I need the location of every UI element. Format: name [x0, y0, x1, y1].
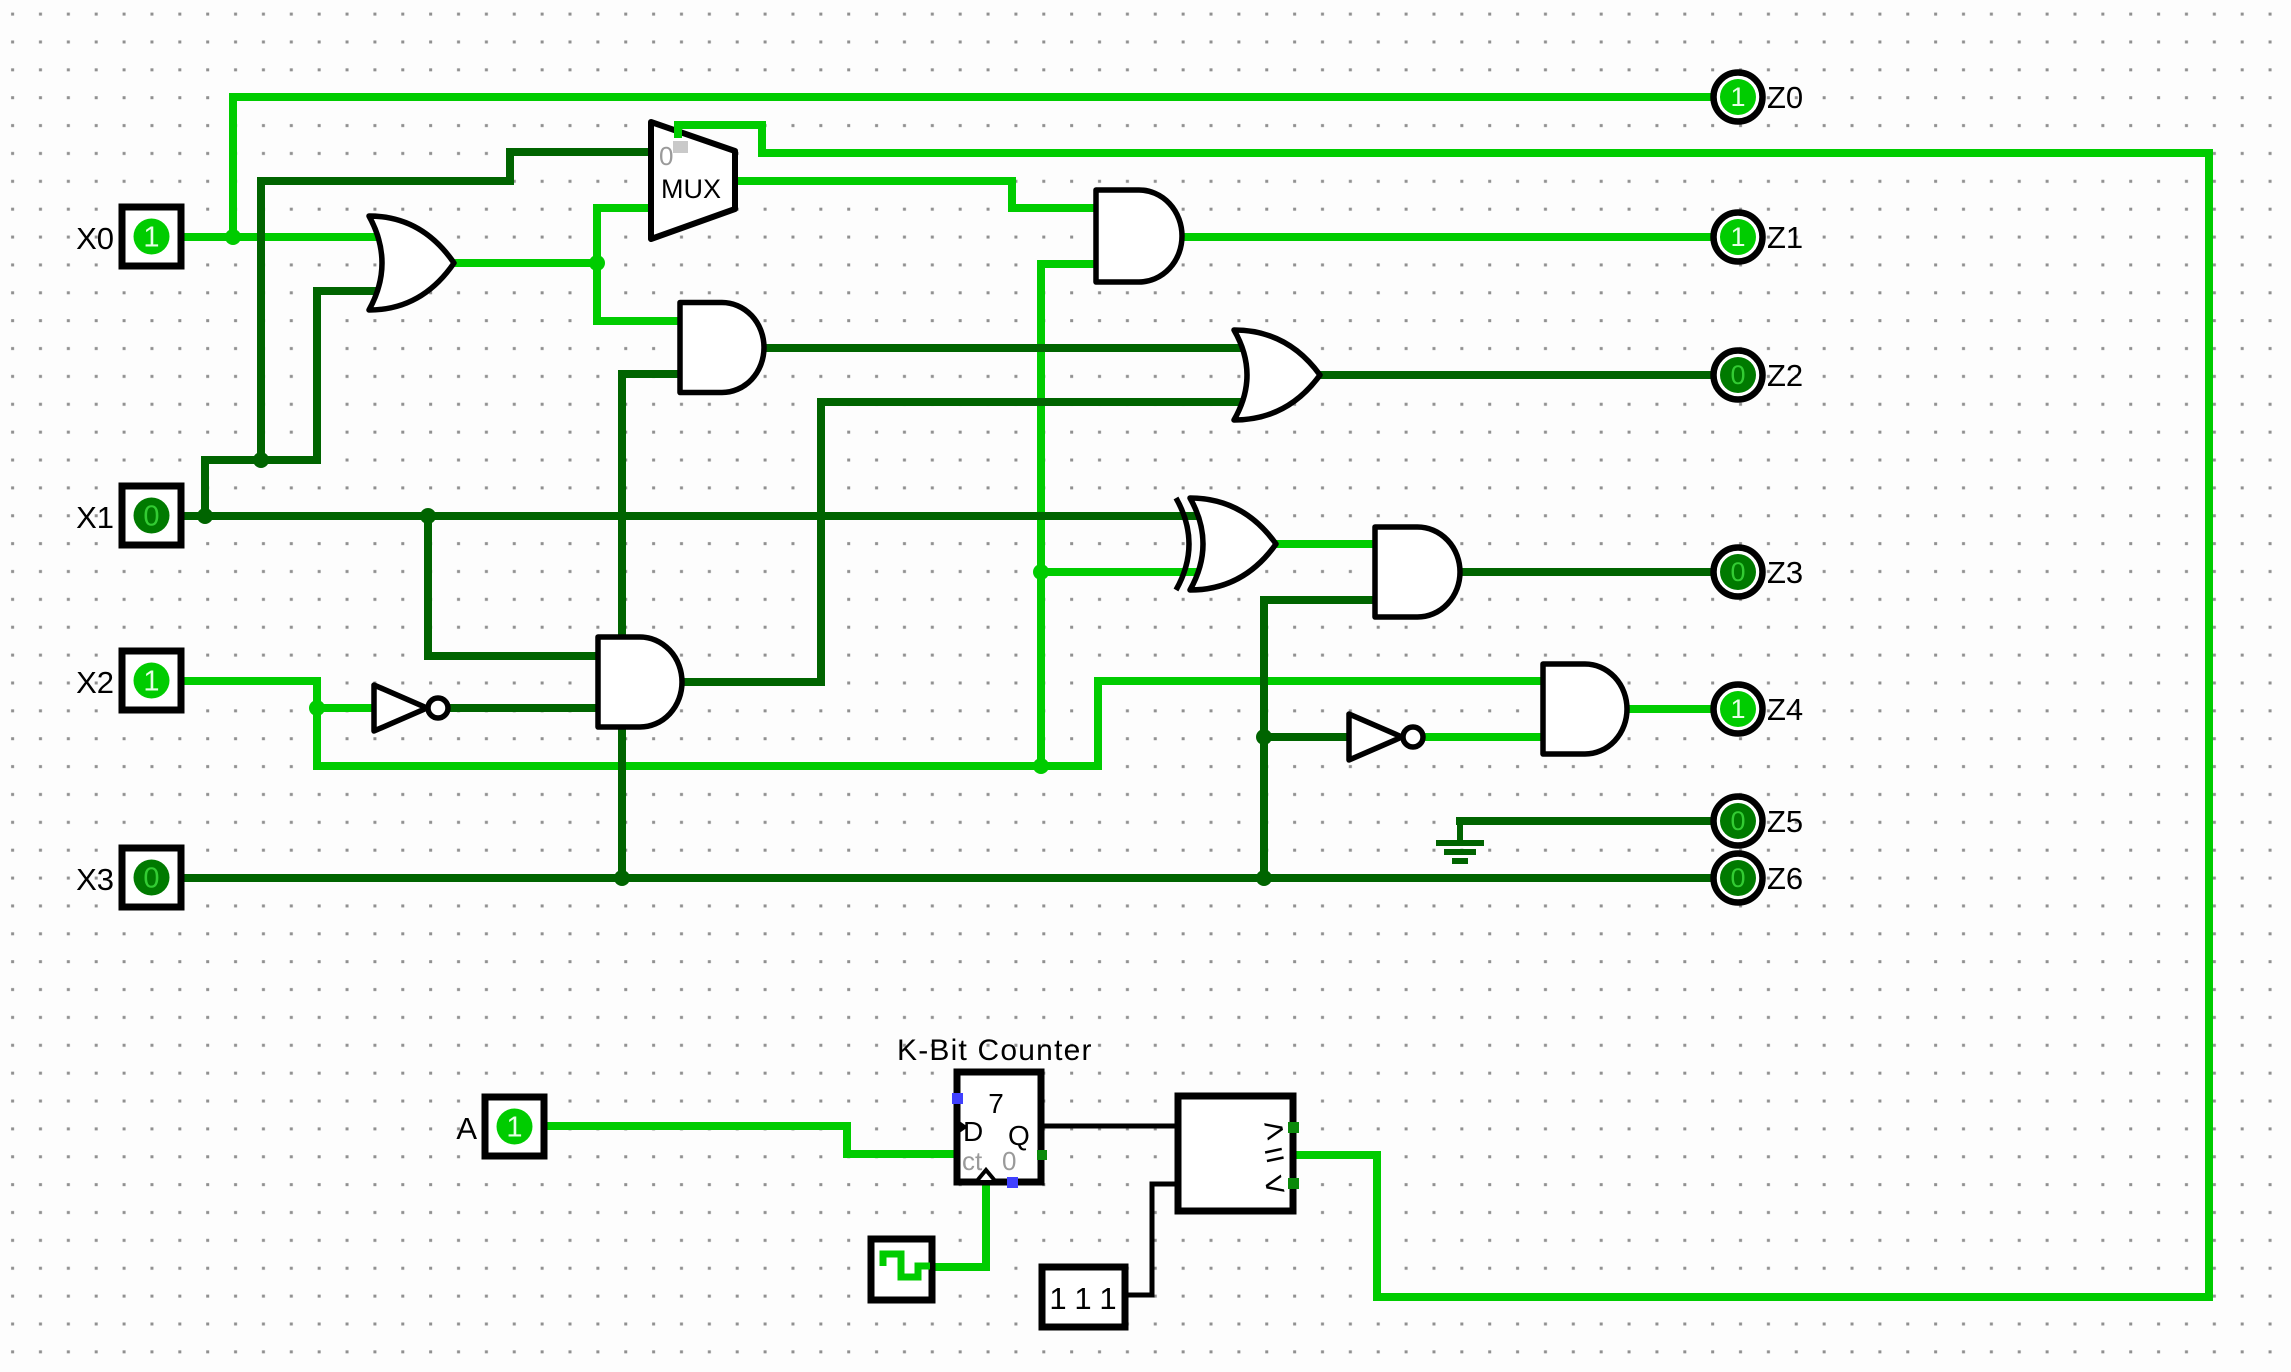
wire X2 row to vertical riser — [317, 762, 1041, 770]
junction X2 riser bottom — [1033, 758, 1049, 774]
wire NOT1 output to AND3 input B — [454, 704, 598, 712]
svg-text:X0: X0 — [76, 221, 114, 256]
and-gate G5 (X1 & NOT X2) — [598, 637, 682, 727]
wire MUX output to AND1 input A — [735, 181, 1096, 208]
wire riser to AND4 input A — [1041, 681, 1543, 766]
wire X1 row — [181, 512, 1215, 520]
input pin X1 — [76, 486, 181, 545]
svg-text:1: 1 — [1074, 1281, 1091, 1316]
comparator U3 body — [1178, 1096, 1293, 1211]
wire riser stub to XOR input B — [1041, 568, 1215, 576]
junction X3 first riser — [614, 870, 630, 886]
clock source — [871, 1239, 932, 1300]
junction X1 down branch — [420, 508, 436, 524]
svg-text:1: 1 — [1049, 1281, 1066, 1316]
wire X0 branch up to Z0 row — [229, 97, 237, 237]
svg-text:7: 7 — [988, 1088, 1004, 1119]
wire X3 riser to AND-Z3 input B — [1264, 600, 1375, 878]
input pin X3 — [76, 848, 181, 907]
junction OR1 output node — [589, 255, 605, 271]
constant value 111 — [1042, 1267, 1125, 1327]
output pin Z6 — [1714, 854, 1804, 903]
wire XOR output to AND-Z3 input A — [1276, 540, 1375, 548]
junction X0 branch — [225, 229, 241, 245]
svg-text:1: 1 — [1730, 694, 1745, 724]
svg-text:0: 0 — [143, 863, 159, 895]
svg-text:D: D — [963, 1116, 983, 1147]
comparator greater output pin — [1288, 1122, 1299, 1133]
or-gate G4 feeding Z2 — [1234, 330, 1320, 420]
output pin Z2 — [1714, 351, 1804, 400]
wire AND-Z3 output to Z3 — [1460, 568, 1712, 576]
counter clear pin (blue) — [1007, 1177, 1018, 1188]
bus counter Q to comparator input A — [1041, 1124, 1178, 1129]
junction X1 at elbow — [197, 508, 213, 524]
svg-text:Z0: Z0 — [1767, 80, 1803, 115]
and-gate G2 feeding Z1 — [1096, 190, 1182, 282]
output pin Z5 — [1714, 797, 1804, 846]
wire Z0 feed across top — [233, 93, 1712, 101]
xor-gate G6 (X1^X2) — [1176, 498, 1276, 590]
input pin A — [456, 1097, 544, 1156]
wire X2 vertical riser — [1041, 264, 1096, 766]
junction X3 second riser — [1256, 870, 1272, 886]
svg-text:0: 0 — [1730, 557, 1745, 587]
svg-text:A: A — [456, 1111, 477, 1146]
svg-text:1: 1 — [143, 666, 159, 698]
wire X3 row to Z6 — [181, 874, 1712, 882]
svg-text:Z2: Z2 — [1767, 358, 1803, 393]
svg-text:1: 1 — [1730, 82, 1745, 112]
output pin Z3 — [1714, 548, 1804, 597]
input pin X2 — [76, 651, 181, 710]
svg-text:Z1: Z1 — [1767, 220, 1803, 255]
wire AND1 output to Z1 — [1182, 233, 1712, 241]
wire A output to counter ct input — [544, 1126, 957, 1154]
svg-text:X3: X3 — [76, 862, 114, 897]
wire X2 output — [181, 681, 317, 766]
svg-text:0: 0 — [1730, 863, 1745, 893]
svg-text:1: 1 — [1099, 1281, 1116, 1316]
wire OR1 output to junction — [454, 259, 597, 267]
wire elbow to OR1 input B — [317, 291, 400, 460]
svg-text:0: 0 — [1002, 1146, 1016, 1176]
output pin Z0 — [1714, 73, 1804, 122]
svg-text:0: 0 — [1730, 806, 1745, 836]
multiplexer U1 — [651, 122, 735, 239]
inverter G9 (NOT X3) — [1349, 714, 1423, 760]
or-gate G1 (X0+X1) — [369, 216, 454, 310]
counter U2 body — [957, 1072, 1041, 1182]
junction MUX0 branch — [253, 452, 269, 468]
svg-text:0: 0 — [143, 501, 159, 533]
svg-text:0: 0 — [659, 141, 673, 171]
svg-text:Z6: Z6 — [1767, 861, 1803, 896]
svg-text:Z3: Z3 — [1767, 555, 1803, 590]
wire AND4 output to Z4 — [1627, 705, 1712, 713]
svg-text:X2: X2 — [76, 665, 114, 700]
svg-text:0: 0 — [1730, 360, 1745, 390]
svg-text:1: 1 — [143, 222, 159, 254]
svg-text:K-Bit Counter: K-Bit Counter — [897, 1034, 1093, 1067]
wire junction up to MUX input 1 — [597, 208, 651, 263]
wire AND2 output to OR2 input A — [764, 344, 1262, 352]
wire ground to Z5 — [1460, 817, 1712, 825]
ground symbol — [1436, 818, 1484, 861]
wire X1 branch down to AND3 input A — [428, 516, 598, 656]
wire comparator EQ output loop to MUX select — [678, 125, 2209, 1297]
output pin Z1 — [1714, 213, 1804, 262]
wire NOT2 output to AND4 input B — [1423, 733, 1543, 741]
wire X3 riser to AND2 input B — [622, 374, 680, 878]
wire X2 branch to NOT1 input — [317, 704, 374, 712]
comparator less output pin — [1288, 1178, 1299, 1189]
counter load pin (blue) — [952, 1093, 963, 1104]
wire AND3 output to OR2 input B — [681, 402, 1262, 682]
junction X2 branch at NOT1 — [309, 700, 325, 716]
wire X0 output to OR1 input A — [181, 233, 400, 241]
junction X2 riser at XOR stub — [1033, 564, 1049, 580]
inverter G8 (NOT X2) — [374, 685, 448, 731]
svg-text:1: 1 — [506, 1112, 522, 1144]
and-gate G7 feeding Z3 — [1375, 527, 1460, 617]
junction X3 riser at NOT2 — [1256, 729, 1272, 745]
svg-text:X1: X1 — [76, 500, 114, 535]
svg-text:Z5: Z5 — [1767, 804, 1803, 839]
svg-text:1: 1 — [1730, 222, 1745, 252]
svg-text:Z4: Z4 — [1767, 692, 1803, 727]
wire MUX select stub — [674, 125, 682, 134]
svg-text:MUX: MUX — [661, 174, 721, 204]
wire clock output to counter clock pin — [932, 1184, 986, 1267]
counter carry pin (green) — [1037, 1150, 1047, 1160]
wire X1 branch up-left elbow — [205, 460, 317, 516]
wire junction down to AND2 input A — [597, 263, 680, 321]
bus constant 111 to comparator input B — [1125, 1184, 1178, 1295]
and-gate G3 feeding OR2 — [680, 303, 764, 393]
and-gate G10 feeding Z4 — [1543, 664, 1627, 754]
wire elbow to MUX input 0 — [261, 152, 651, 460]
input pin X0 — [76, 207, 181, 266]
output pin Z4 — [1714, 685, 1804, 734]
wire X3 branch to NOT2 input — [1264, 733, 1349, 741]
wire OR2 output to Z2 — [1320, 371, 1712, 379]
svg-text:ct: ct — [962, 1146, 983, 1176]
